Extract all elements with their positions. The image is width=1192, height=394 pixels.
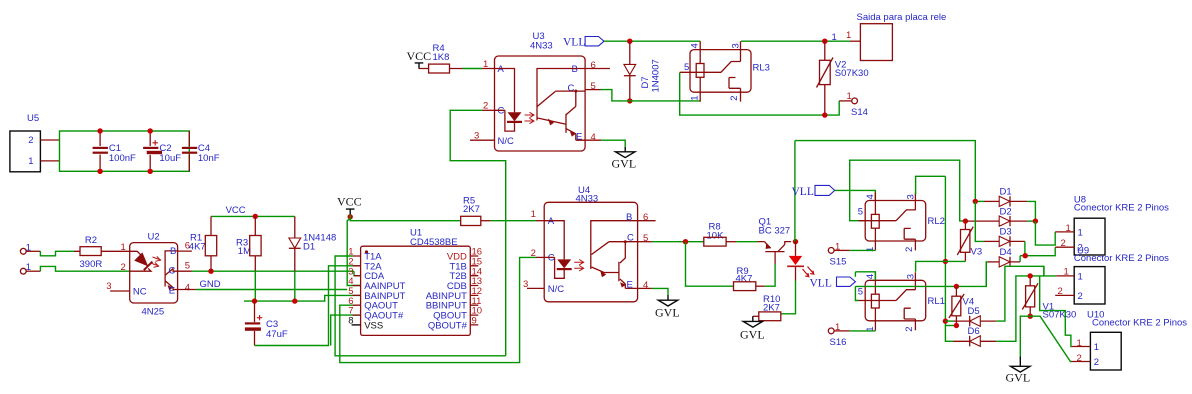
wire : U3 pin4 E to ground	[601, 140, 625, 147]
wire : RL3 pin5 to S14/V2 bottom	[680, 73, 840, 116]
svg-text:1N4007: 1N4007	[651, 59, 662, 92]
svg-text:GVL: GVL	[655, 306, 680, 320]
junction dots on cap rails	[97, 128, 102, 133]
junction dot D1 anode	[973, 199, 978, 204]
junction dot R1 bottom	[208, 269, 213, 274]
svg-text:VCC: VCC	[337, 195, 362, 209]
svg-text:RL2: RL2	[928, 216, 945, 227]
wire : rail to C3 top / U1 pin5	[244, 295, 361, 301]
svg-text:5: 5	[684, 62, 689, 73]
wire : VCC to R5 and down-branch to U1 pin4	[350, 215, 461, 221]
wire : RL2 pin3 up and over to V3 / D column	[916, 176, 946, 194]
wire : R9 to Q1 base	[765, 264, 775, 286]
connector U10	[1072, 309, 1188, 370]
net flag VLL (Q1 rail)	[792, 141, 835, 242]
varistor V4	[949, 286, 974, 325]
diode D7 1N4007	[624, 41, 662, 101]
resistor R4	[419, 43, 463, 73]
wire : R8 to Q1	[736, 241, 757, 243]
junction dot R8 left	[683, 239, 688, 244]
capacitor C4	[182, 131, 220, 171]
svg-text:A: A	[498, 64, 505, 75]
svg-text:D5: D5	[968, 306, 980, 317]
svg-text:4: 4	[185, 283, 190, 294]
resistor R2	[74, 235, 130, 270]
svg-text:3: 3	[906, 274, 917, 279]
svg-text:D2: D2	[1000, 206, 1012, 217]
U4 internal LED	[544, 221, 564, 279]
ground GVL (U3)	[612, 147, 637, 171]
svg-text:VLL: VLL	[810, 278, 832, 290]
svg-text:NC: NC	[133, 287, 147, 298]
svg-text:VCC: VCC	[407, 49, 432, 63]
junction dot D1/D2 cathodes	[1033, 218, 1038, 223]
capacitor C1	[93, 131, 136, 171]
svg-text:V3: V3	[971, 247, 983, 258]
svg-text:2: 2	[904, 247, 915, 252]
svg-text:N/C: N/C	[548, 284, 565, 295]
svg-text:5: 5	[858, 207, 863, 218]
wire : VLL to RL1 pin4	[855, 272, 875, 281]
svg-text:GVL: GVL	[1006, 371, 1031, 385]
transistor Q1 BC 327	[757, 217, 791, 264]
junction dot V2 bottom	[822, 112, 827, 117]
svg-text:3: 3	[730, 43, 741, 48]
svg-text:D1: D1	[303, 241, 315, 252]
wire : V1 bottom to ground	[1020, 316, 1030, 356]
diode D5	[945, 266, 1043, 326]
svg-text:5: 5	[858, 286, 863, 297]
U3 darlington pair	[537, 69, 585, 103]
svg-text:D6: D6	[968, 326, 980, 337]
svg-text:E: E	[576, 132, 582, 143]
opto-coupler U4 4N33	[523, 185, 656, 302]
svg-text:3: 3	[106, 281, 111, 292]
svg-text:2: 2	[904, 327, 915, 332]
svg-text:D7: D7	[640, 76, 651, 88]
ground GVL (R10)	[740, 316, 765, 341]
wire : staircase to U10 pin1	[1040, 276, 1072, 347]
svg-text:2: 2	[121, 262, 126, 273]
resistor R8	[704, 222, 736, 247]
svg-text:R2: R2	[85, 235, 97, 246]
svg-text:E: E	[169, 286, 175, 297]
wire : V1 bottom diagonal to U10 pin2	[1030, 316, 1072, 361]
resistor R5	[461, 196, 491, 226]
svg-text:5: 5	[185, 261, 190, 272]
diode D3	[975, 201, 1025, 255]
svg-text:2: 2	[28, 135, 33, 146]
wire : LED cathode to R10	[781, 281, 796, 314]
svg-text:D4: D4	[1000, 247, 1012, 258]
svg-text:GVL: GVL	[740, 328, 765, 342]
relay RL1	[858, 272, 945, 332]
wire : VLL rail to D1 anode column	[795, 141, 975, 202]
svg-text:VLL: VLL	[792, 186, 814, 198]
net flag VLL (RL1)	[810, 272, 856, 290]
wire : R5 to U4 pin1	[490, 220, 536, 222]
diode D1 1N4148	[289, 216, 336, 301]
svg-text:2: 2	[1078, 291, 1083, 302]
net label VLL (U3)	[563, 37, 604, 49]
wire : RL1 pin3 to V3 bottom	[916, 261, 966, 271]
ground GVL (right)	[1006, 356, 1031, 384]
svg-text:1: 1	[832, 32, 837, 43]
capacitor C2 (polarized)	[143, 131, 181, 171]
net flag VLL (RL2) wire	[835, 160, 966, 221]
svg-text:B: B	[170, 246, 176, 257]
svg-text:1: 1	[531, 209, 536, 220]
terminal J2 bottom input	[20, 262, 40, 274]
wire : GND net U2 pin4 to U1 pin4 area	[196, 289, 347, 291]
wire : U1 pin1 inner loop to U3 pin2 net	[335, 256, 506, 356]
svg-text:4: 4	[591, 132, 596, 143]
svg-text:BC 327: BC 327	[759, 226, 791, 237]
svg-text:1: 1	[847, 91, 852, 102]
svg-text:C: C	[568, 83, 575, 94]
varistor V1	[1022, 276, 1076, 321]
U1 left pins	[353, 256, 361, 315]
svg-text:Conector KRE 2 Pinos: Conector KRE 2 Pinos	[1092, 317, 1187, 328]
varistor V2 S07K30	[817, 41, 869, 115]
wire : long vertical output net	[945, 176, 953, 341]
svg-text:B: B	[572, 64, 578, 75]
U4 darlington pair	[591, 221, 638, 253]
svg-text:D3: D3	[1000, 226, 1012, 237]
svg-text:2: 2	[729, 96, 740, 101]
svg-text:2K7: 2K7	[463, 204, 480, 215]
terminal J1 top input	[20, 242, 40, 254]
svg-text:47uF: 47uF	[266, 329, 288, 340]
svg-text:GVL: GVL	[612, 157, 637, 171]
terminal S14	[839, 91, 868, 118]
svg-text:4N25: 4N25	[142, 307, 165, 318]
svg-text:S16: S16	[830, 337, 847, 348]
junction dot Q1 collector / VLL	[793, 239, 798, 244]
U2 emission arrows	[153, 256, 162, 261]
svg-text:VSS: VSS	[364, 320, 383, 331]
svg-text:2: 2	[531, 248, 536, 259]
svg-text:10uF: 10uF	[159, 153, 181, 164]
wire : VCC rail above R1 R3 D1	[211, 215, 295, 217]
wire : U1 pin6 outer loop to U4 pin2	[340, 257, 536, 362]
svg-text:390R: 390R	[80, 259, 103, 270]
resistor R9	[734, 266, 765, 291]
svg-text:Saida para placa rele: Saida para placa rele	[857, 12, 947, 23]
svg-text:RL1: RL1	[928, 296, 945, 307]
svg-text:9: 9	[472, 316, 477, 327]
svg-text:4: 4	[643, 280, 648, 291]
svg-text:1: 1	[1077, 338, 1082, 349]
svg-text:S07K30: S07K30	[835, 68, 869, 79]
svg-text:1K8: 1K8	[433, 52, 450, 63]
U2 internal LED	[130, 251, 151, 271]
IC U1 CD4538BE	[348, 228, 482, 336]
svg-text:C: C	[548, 253, 555, 264]
junction dot V4 bottom	[954, 323, 959, 328]
wire : R8 node down to R9	[686, 242, 734, 287]
wire : top input jog to R2	[40, 251, 74, 256]
svg-text:1: 1	[1094, 342, 1099, 353]
connector U5	[10, 113, 60, 172]
svg-text:S14: S14	[851, 107, 868, 118]
resistor R3	[236, 216, 261, 301]
junction dot V3 top	[963, 218, 968, 223]
connector Saida para placa rele	[832, 12, 947, 61]
svg-text:2: 2	[1094, 357, 1099, 368]
connector U9	[1055, 245, 1169, 304]
U4 emission arrows	[574, 260, 584, 265]
svg-text:Conector KRE 2 Pinos: Conector KRE 2 Pinos	[1074, 253, 1169, 264]
opto-coupler U2 4N25	[106, 232, 196, 318]
svg-text:1: 1	[121, 242, 126, 253]
svg-text:4: 4	[865, 194, 876, 199]
wire : U2 pin5 net to R1 and U1 pin3	[192, 271, 361, 276]
wire : U4 pin4 E to ground	[652, 288, 668, 295]
U3 emission arrows	[525, 112, 535, 117]
U1 right pins	[470, 256, 478, 325]
svg-text:1: 1	[1078, 271, 1083, 282]
capacitor C3 (polarized)	[245, 301, 288, 345]
svg-text:4: 4	[865, 274, 876, 279]
svg-text:100nF: 100nF	[109, 153, 136, 164]
junction dot VCC	[348, 214, 353, 219]
opto-coupler U3 4N33	[470, 31, 610, 151]
diode D2	[965, 206, 1035, 226]
svg-text:QBOUT#: QBOUT#	[428, 320, 468, 331]
wire : U9 pin1	[1044, 266, 1056, 276]
svg-text:VLL: VLL	[563, 37, 585, 49]
junction dot D7 bottom	[627, 98, 632, 103]
svg-text:U5: U5	[27, 113, 39, 124]
diode D1	[975, 186, 1035, 221]
svg-text:4K7: 4K7	[736, 274, 753, 285]
diode D4	[986, 247, 1020, 286]
svg-text:8: 8	[348, 316, 353, 327]
svg-text:C: C	[169, 266, 176, 277]
junction dot V1 bottom	[1028, 314, 1033, 319]
svg-text:Conector KRE 2 Pinos: Conector KRE 2 Pinos	[1074, 203, 1169, 214]
wire : U3 pin5 C to D7 bottom and RL3 pin1	[601, 90, 701, 101]
svg-text:RL3: RL3	[753, 63, 770, 74]
wire : C3 bottom to U1 pin2 / pin7	[255, 266, 361, 346]
wire : VLL to RL3 pin4 with D7 tap	[604, 40, 700, 42]
svg-text:4: 4	[690, 43, 701, 48]
svg-text:N/C: N/C	[498, 136, 515, 147]
svg-text:1: 1	[689, 96, 700, 101]
svg-text:10nF: 10nF	[198, 153, 220, 164]
varistor V3	[957, 221, 982, 261]
relay RL3	[680, 0, 905, 102]
svg-text:C: C	[498, 106, 505, 117]
terminal S15	[828, 241, 875, 267]
wire : cap rails	[60, 131, 190, 171]
svg-text:A: A	[548, 216, 555, 227]
svg-text:4K7: 4K7	[189, 241, 206, 252]
diode D6	[954, 276, 1044, 347]
svg-text:VCC: VCC	[226, 205, 246, 216]
svg-text:U2: U2	[148, 232, 160, 243]
svg-text:4N33: 4N33	[530, 41, 553, 52]
connector U8	[1055, 195, 1169, 255]
ground GVL (U4)	[655, 295, 680, 320]
wire : D1/D2 cathodes zigzag to U8 pin1	[1035, 221, 1055, 245]
wire : VLL/RL1 pin5 long net	[855, 262, 987, 287]
svg-text:1: 1	[1078, 227, 1083, 238]
svg-text:1: 1	[865, 247, 876, 252]
svg-text:1: 1	[28, 156, 33, 167]
resistor R10	[753, 294, 781, 321]
wire : U3 pin2 C loop down to U1 area	[450, 110, 506, 355]
svg-text:S15: S15	[830, 256, 847, 267]
resistor R1	[189, 216, 217, 271]
wire : RL3 pin3 to Saida pin1 and V2	[741, 40, 850, 42]
U3 internal LED	[495, 69, 515, 132]
svg-text:D1: D1	[1000, 186, 1012, 197]
wire : U4 pin5 C to R8	[652, 241, 704, 243]
svg-text:3: 3	[906, 194, 917, 199]
svg-text:10K: 10K	[707, 230, 725, 241]
svg-text:1: 1	[846, 30, 851, 41]
relay RL2	[858, 193, 945, 253]
svg-text:GND: GND	[200, 279, 221, 290]
wire : R4 to U3 pin1	[463, 68, 483, 70]
U2 phototransistor	[165, 251, 178, 268]
junction dot V1 top	[1028, 273, 1033, 278]
svg-text:6: 6	[643, 212, 648, 223]
terminal S16	[828, 322, 875, 348]
LED D (indicator)	[787, 242, 814, 281]
wire : D3/D4 cathodes to U8 pin2	[1020, 247, 1055, 256]
wire : bottom input jog to U2 pin2	[40, 266, 129, 271]
svg-text:2: 2	[1077, 353, 1082, 364]
power symbol VCC (at R4)	[407, 49, 432, 69]
power symbol VCC (main)	[337, 195, 362, 217]
